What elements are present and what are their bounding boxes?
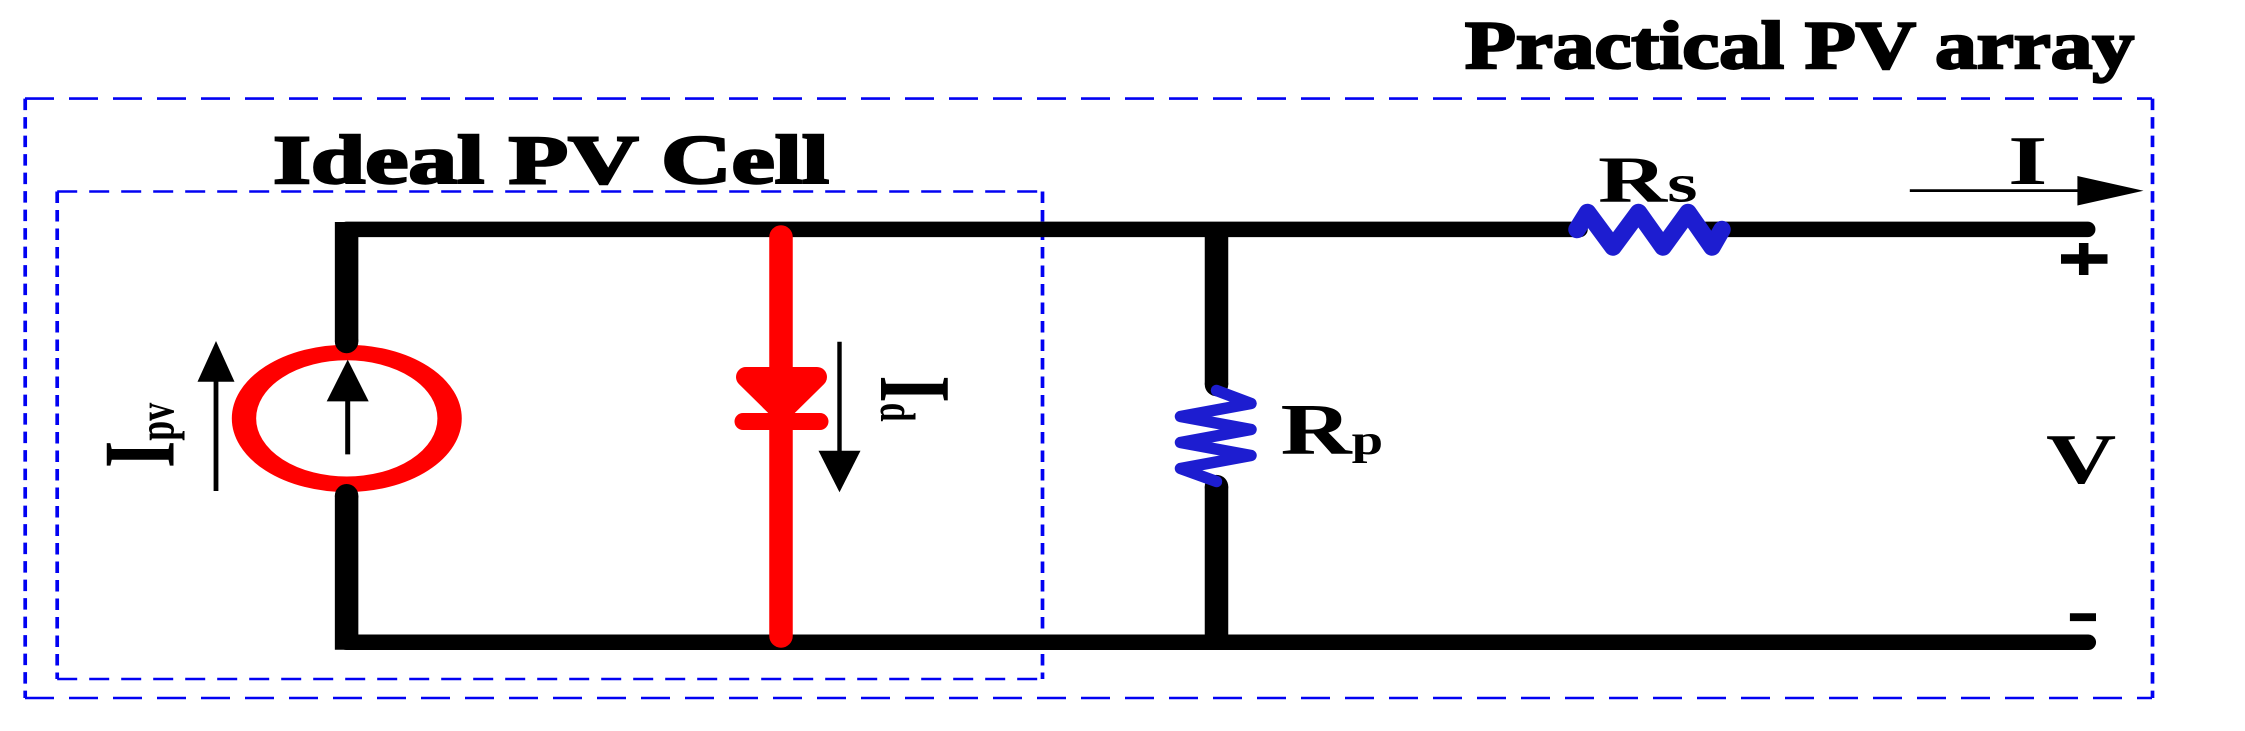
current source U1 (red ellipse) — [244, 353, 450, 485]
svg-text:V: V — [2046, 420, 2116, 498]
svg-text:Rp: Rp — [1281, 389, 1384, 470]
Ipv arrow — [214, 379, 219, 491]
diode D1 cathode bar — [743, 413, 820, 430]
svg-text:I: I — [2008, 121, 2048, 199]
svg-text:Practical PV array: Practical PV array — [1465, 7, 2134, 83]
svg-text:Id: Id — [859, 376, 972, 423]
resistor Rp (vertical zigzag) — [1181, 391, 1252, 482]
wire: top horizontal left segment (node to Rs) — [347, 222, 1580, 238]
svg-text:Ideal PV Cell: Ideal PV Cell — [273, 122, 829, 198]
terminal - (minus) — [2070, 613, 2096, 621]
wire: top horizontal right segment (Rs to + terminal) — [1706, 222, 2088, 238]
output current arrow I — [1910, 189, 2090, 192]
Id arrow — [837, 342, 841, 455]
svg-text:Rs: Rs — [1598, 143, 1698, 216]
outer dashed box (Practical PV array) — [25, 99, 2153, 698]
svg-text:Ipv: Ipv — [83, 402, 196, 468]
diode D1 triangle — [746, 377, 817, 412]
wire: left branch vertical (top corner down to current source) — [335, 222, 359, 342]
wire: left branch vertical (current source to bottom corner) — [335, 496, 359, 650]
current source internal arrow — [345, 398, 350, 454]
inner dashed box (Ideal PV Cell) — [57, 192, 1042, 680]
resistor Rs (horizontal zigzag) — [1577, 213, 1722, 248]
wire: Rp branch lower vertical — [1205, 487, 1229, 650]
diode D1 branch wire (red vertical) — [769, 237, 793, 636]
terminal + — [2061, 254, 2108, 264]
wire: bottom horizontal — [347, 635, 2089, 651]
wire: Rp branch upper vertical — [1205, 222, 1229, 385]
